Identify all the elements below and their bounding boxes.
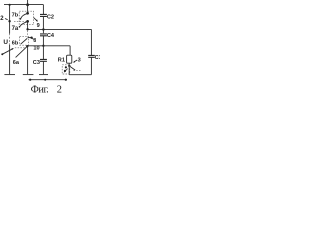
wire lower mid rail [27, 45, 70, 47]
contact 7b tip dot [20, 18, 22, 20]
wire bottom rail right [69, 74, 91, 76]
svg-text:R1: R1 [58, 57, 65, 63]
wire center stub to contact 7b [27, 5, 29, 14]
svg-text:C1: C1 [95, 55, 100, 61]
wire C2 to mid rail [42, 17, 44, 29]
wire top stub [27, 0, 29, 5]
junction dot R1 bottom [68, 65, 70, 67]
wire C4 to lower rail [42, 36, 44, 46]
wire right bus lower [90, 58, 92, 75]
junction dot 7a pivot [26, 20, 29, 23]
dashed link center [27, 31, 29, 37]
wire center drop to mid rail [27, 22, 29, 30]
capacitor C2 [40, 14, 47, 16]
link stub 8 [28, 37, 32, 39]
leader arrow 9 [34, 18, 38, 22]
svg-text:C3: C3 [33, 60, 40, 66]
svg-text:8: 8 [33, 38, 36, 44]
junction dot 6a [26, 45, 28, 47]
svg-text:Фиг.: Фиг. [31, 84, 49, 94]
svg-text:U: U [3, 39, 8, 46]
svg-text:2: 2 [57, 84, 62, 94]
wire left bus lower [9, 45, 11, 74]
svg-text:6a: 6a [13, 60, 20, 66]
wire C2 branch upper [42, 5, 44, 14]
capacitor C4 [40, 34, 47, 36]
wire right bus upper [90, 29, 92, 55]
wire center lower drop [27, 46, 29, 74]
wire top rail [4, 4, 43, 6]
wire C3 lower [42, 62, 44, 75]
arrowhead 8 [32, 38, 34, 39]
terminal bar under left bus [4, 74, 15, 76]
terminal 2 leader arrow [5, 19, 8, 20]
wire mid rail to C4 [42, 29, 44, 33]
svg-text:6b: 6b [12, 40, 19, 46]
contact blade below R1 [69, 66, 75, 70]
svg-text:C2: C2 [47, 14, 54, 20]
junction dot mid rail C branch [42, 28, 44, 30]
contact 6b blade [21, 38, 28, 44]
dashed box relay contact group 7 [19, 11, 33, 24]
dimension line above caption [29, 79, 67, 81]
dashed box contact below R1 [62, 65, 70, 74]
contact 7a tip dot [19, 26, 21, 28]
wire C3 upper [42, 46, 44, 59]
capacitor C3 [40, 59, 47, 61]
wire R1 to bottom rail [68, 66, 70, 75]
junction dot mid rail left [26, 28, 28, 30]
wire corner down to R1 [69, 46, 71, 55]
contact 7a dashed link [14, 21, 27, 23]
svg-text:9: 9 [37, 23, 40, 29]
svg-text:3: 3 [78, 57, 81, 63]
contact 6a blade [16, 47, 27, 58]
resistor R1 [67, 55, 72, 63]
svg-text:10: 10 [33, 46, 39, 52]
svg-text:7b: 7b [12, 12, 19, 18]
junction dot left T [9, 4, 11, 6]
junction dot 8 [30, 37, 32, 39]
dashed link 6a [15, 47, 26, 49]
wire left bus upper [9, 5, 11, 34]
junction dot lower rail [42, 45, 44, 47]
contact 7a blade [20, 22, 28, 27]
wire left bus dashed middle [9, 34, 11, 46]
terminal bar under center [23, 74, 34, 76]
contact 7b blade [21, 13, 28, 18]
arrow 5 [2, 49, 12, 54]
svg-text:C4: C4 [47, 33, 55, 39]
wire mid rail [28, 28, 92, 30]
dashed box contact 6b [20, 37, 29, 46]
svg-text:7a: 7a [12, 26, 19, 32]
terminal bar under C3 [39, 74, 48, 76]
wire R1 bottom lead [68, 63, 70, 65]
svg-text:2: 2 [0, 16, 4, 22]
junction dot 7b pivot [26, 12, 29, 15]
junction dot terminal 2 [8, 20, 10, 22]
capacitor C1 [88, 55, 95, 57]
dashed link right [73, 70, 81, 72]
leader arrow 3 [74, 60, 77, 62]
contact marks in dashed box [65, 66, 67, 68]
junction dot node top [26, 3, 29, 6]
